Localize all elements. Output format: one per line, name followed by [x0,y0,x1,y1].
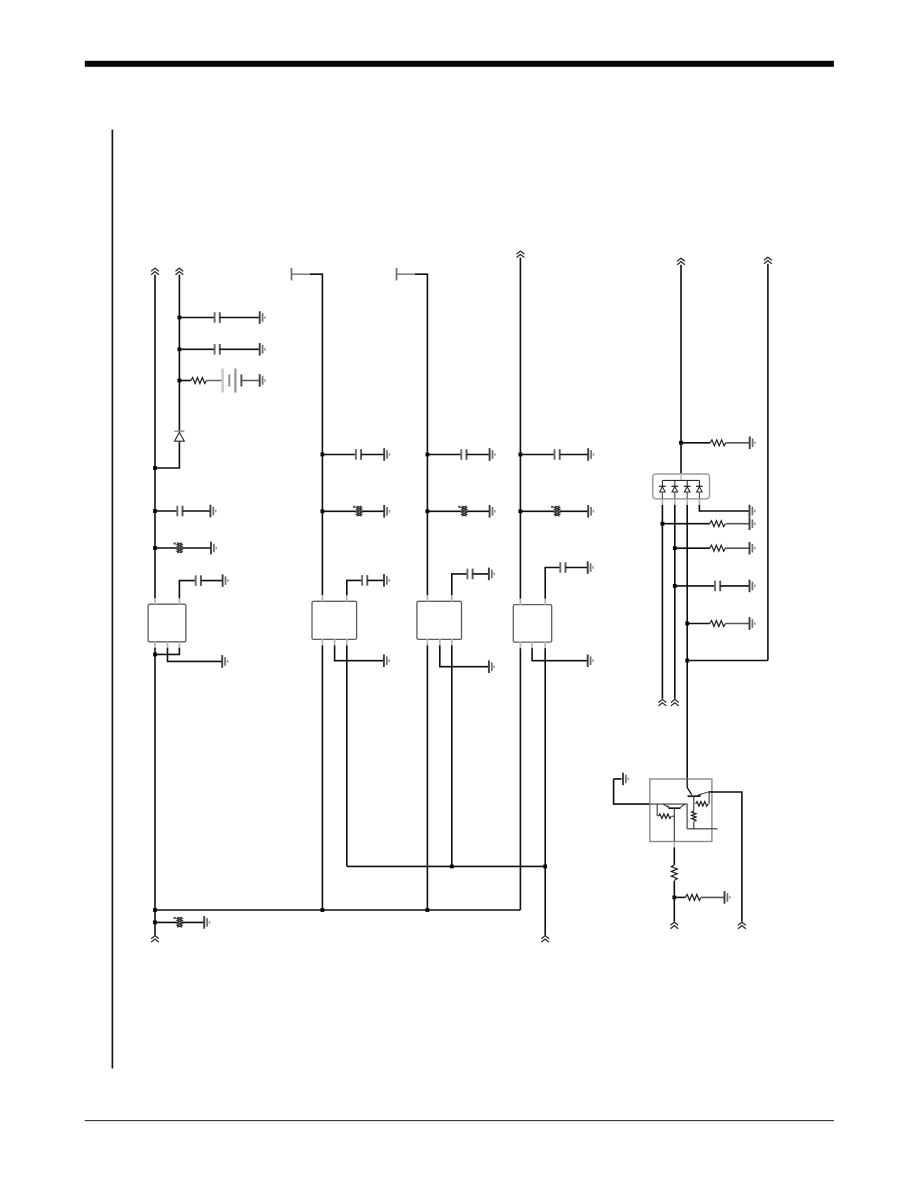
wire C7 right lead [467,454,490,456]
wire U4 pin3 to C10 [545,568,560,599]
resistor R9 [710,621,726,627]
junction bus2-U3 [426,908,430,912]
wire U5 common bus [662,479,699,481]
node VCC2 off-page arrow [176,268,184,275]
Q1 pin stub bottom [673,842,675,848]
U1 pin stub top-left [154,598,156,604]
wire U5 pin2 down [674,505,676,699]
transistor Q1-B (right) [687,779,709,796]
diode-array U5 body [653,474,710,499]
wire Q1-RA link [672,815,674,817]
ground R3 [384,505,389,518]
resistor Q1-RB [696,802,709,807]
wire R2 right lead [182,547,211,549]
resistor R7 [710,521,726,527]
ground R9 [750,617,755,630]
U3 pin stub bottom-left [426,639,428,645]
wire U5 common stub [680,474,682,480]
diode D1 [174,431,184,441]
wire C1 left lead [179,317,214,319]
op-amp U4 resonator [513,605,551,643]
wire U4 mid pin to ground [532,648,588,661]
wire U2 right pin down [346,645,348,866]
U2 pin stub top-right [346,595,348,601]
resistor R2 (bead) [174,543,183,553]
wire R8 right lead [725,547,749,549]
capacitor C8 [467,569,472,580]
U2 pin stub bottom-right [346,639,348,645]
ground U1 mid pin [222,655,227,668]
ground R6 [750,437,755,450]
wire Q1 bias input [614,779,650,804]
capacitor C3 [177,506,182,517]
junction p1-R7 [661,522,665,526]
junction F-R6 [679,441,683,445]
U5 pin stub 1 [661,499,663,505]
ground C1 [260,311,265,324]
node VDD2 off-page arrow [764,257,772,264]
resistor R12 [685,894,701,900]
wire line-A lower vertical [154,648,156,935]
junction E-R5 [519,509,523,513]
wire C11 right lead [720,585,749,587]
op-amp U1 resonator [148,604,186,642]
U4 pin stub bottom-left [519,642,521,648]
capacitor C5 [356,449,361,460]
wire bus2 [155,909,520,911]
node VCC3 off-page arrow [517,251,525,258]
resistor R11 [671,865,677,881]
wire p3 to line-G [687,660,768,662]
U4 pin stub bottom-right [544,642,546,648]
U4 pin stub top-left [519,599,521,605]
wire C10 right lead [566,567,588,569]
wire C2 right lead [220,348,260,350]
wire C11 left lead [675,585,715,587]
junction C-R3 [321,509,325,513]
U3 pin stub top-right [451,595,453,601]
wire C3 right lead [183,510,211,512]
wire R3 left lead [322,510,356,512]
terminal T2 [396,268,398,280]
capacitor C7 [461,449,466,460]
ground BT1 [260,374,265,387]
wire Q1 emitter down [673,848,675,865]
wire line-G vertical [767,264,769,661]
resistor Q1-RA [658,814,671,819]
resistor R8 [710,545,726,551]
diode U5-D3 [684,480,691,499]
wire Q1 collector stub [687,828,717,830]
junction B-C2 [178,347,182,351]
wire B diode to jog [155,442,179,468]
node OUT off-page arrow [738,922,746,929]
wire U3 pin3 to C8 [452,574,468,595]
ground R2 [211,542,216,555]
wire Q1-B emitter link [708,792,710,804]
U2 pin stub bottom-mid [334,639,336,645]
wire R11 tail [673,881,675,922]
resistor R5 (bead) [551,506,560,516]
wire R7 right lead [726,523,749,525]
wire C2 left lead [179,348,214,350]
node GND-A off-page arrow [151,936,159,943]
wire column-D from T2 lead [397,273,416,275]
wire C8 right lead [473,573,489,575]
U5 pin stub 4 [698,499,700,505]
node P2 off-page arrow [671,699,679,706]
wire U1 mid pin to ground [168,648,223,662]
ground C9 [588,448,593,461]
ground C10 [588,561,593,574]
node VDD1 off-page arrow [677,258,685,265]
wire U1 right pin jog [155,648,179,655]
wire C9 right lead [560,454,589,456]
ground R12 [725,891,730,904]
wire R12 right lead [701,896,725,898]
wire C7 left lead [427,454,461,456]
wire U3 left pin down [426,645,428,910]
wire BT1 right lead [241,380,259,382]
junction R11-R12 [672,896,676,900]
U5 pin stub 2 [674,499,676,505]
wire R9 right lead [725,623,749,625]
wire line-B vertical [178,275,180,431]
U3 pin stub bottom-mid [439,639,441,645]
wire column-C from T1 lead [292,273,311,275]
wire U3 right pin down [451,645,453,866]
diode U5-D1 [659,480,666,499]
wire R5 right lead [560,510,589,512]
wire R6 right lead [726,442,750,444]
junction p3-G [685,659,689,663]
resistor R3 (bead) [353,506,362,516]
capacitor C4 [196,575,201,586]
ground R5 [588,505,593,518]
wire line-A vertical [154,275,156,599]
transistor Q1 body [650,779,712,842]
wire R10 right lead [182,921,204,923]
U3 pin stub bottom-right [451,639,453,645]
wire U2 mid pin to ground [335,645,384,660]
ground C3 [210,505,215,518]
resistor R1 [191,378,207,384]
wire U5 pin1 down [661,505,663,699]
wire R8 left lead [675,547,710,549]
wire U3 mid pin to ground [440,645,489,666]
wire R6 left lead [681,442,710,444]
wire R9 left lead [687,623,710,625]
junction A-R2 [153,546,157,550]
wire U5 pin4 to ground [699,505,749,511]
junction bus1-U3 [450,865,454,869]
ground U4 mid pin [588,654,593,667]
wire C3 left lead [155,510,177,512]
junction A-R10 [153,921,157,925]
wire U4 right pin down [544,648,546,935]
wire line-F vertical [680,265,682,474]
ground R8 [750,542,755,555]
node EMIT off-page arrow [670,922,678,929]
wire U2 left pin down [321,645,323,910]
ground C5 [384,448,389,461]
wire C5 left lead [322,454,356,456]
ground R4 [490,505,495,518]
battery BT1 [223,369,242,393]
ground U3 mid pin [489,660,494,673]
U5 pin stub 3 [686,499,688,505]
wire R1-BT1 lead [206,380,222,382]
transistor Q1-A (left) [663,804,685,808]
wire C5 right lead [361,454,384,456]
junction D-C7 [426,453,430,457]
capacitor C10 [560,562,565,573]
U3 pin stub top-left [426,595,428,601]
wire C4 right lead [201,580,223,582]
wire R4 right lead [467,510,490,512]
terminal T1 [291,268,293,280]
capacitor C6 [362,575,367,586]
ground C2 [260,343,265,356]
wire Q1 output [709,792,742,922]
capacitor C1 [215,312,220,323]
wire U2 pin3 to C6 [347,580,362,595]
resistor R4 (bead) [458,506,467,516]
junction A-bus2 [153,908,157,912]
wire C9 left lead [520,454,554,456]
ground C8 [489,568,494,581]
junction p2-C11 [673,584,677,588]
wire column-D from T2 [415,274,427,595]
junction p3-R9 [685,622,689,626]
wire R12 left lead [674,896,685,898]
ground R10 [204,916,209,929]
resistor R6 [710,440,726,446]
U4 pin stub top-right [544,599,546,605]
U1 pin stub bottom-right [178,641,180,647]
wire R2 left lead [155,547,177,549]
wire C1 right lead [220,317,260,319]
resistor R10 (bead) [174,917,183,927]
wire R4 left lead [427,510,461,512]
U2 pin stub top-left [321,595,323,601]
U1 pin stub top-right [178,598,180,604]
wire C6 right lead [367,579,384,581]
ground C4 [223,574,228,587]
wire Q1-A base branch [656,804,658,816]
wire column-C from T1 [310,274,322,595]
ground Q1 bias [623,773,628,786]
wire U5 pin3 down [686,505,688,779]
wire bus1 [347,865,545,867]
wire Q1-B base drop [693,796,695,811]
wire Q1 input rail [650,804,687,829]
node P1 off-page arrow [659,699,667,706]
junction A-C3 [153,509,157,513]
wire Q1-RB link [708,803,711,805]
junction A-U1 [153,653,157,657]
U2 pin stub bottom-left [321,639,323,645]
resistor Q1-RC [692,811,696,822]
junction E-bus1 [543,865,547,869]
wire U1 pin3 to C4 [179,581,195,599]
wire R3 right lead [362,510,385,512]
wire R10 left lead [155,921,177,923]
wire R1 left lead [179,380,190,382]
wire R5 left lead [520,510,554,512]
capacitor C11 [715,581,720,592]
junction C-C5 [321,453,325,457]
junction A-B jog [153,466,157,470]
op-amp U2 resonator [312,601,357,639]
ground C11 [750,580,755,593]
capacitor C9 [555,449,560,460]
diode U5-D4 [696,480,703,499]
wire column-E vertical [519,258,521,599]
junction E-C9 [519,453,523,457]
U4 pin stub bottom-mid [531,642,533,648]
wire Q1-RC tail [693,822,695,829]
diode U5-D2 [671,480,678,499]
junction D-R4 [426,509,430,513]
ground C6 [384,574,389,587]
wire Q1-A emitter drop [673,808,675,841]
ground R7 [750,517,755,530]
ground C7 [490,448,495,461]
node VCC1 off-page arrow [151,268,159,275]
wire U4 left pin down [519,648,521,910]
op-amp U3 resonator [417,601,462,639]
ground U5 pin4 [750,505,755,518]
node GND-E off-page arrow [541,936,549,943]
capacitor C2 [215,344,220,355]
U1 pin stub bottom-left [154,641,156,647]
U1 pin stub bottom-mid [167,641,169,647]
junction B-R1 [178,379,182,383]
junction bus2-U2 [321,908,325,912]
ground U2 mid pin [384,654,389,667]
junction B-C1 [178,316,182,320]
wire R7 left lead [662,523,709,525]
junction p2-R8 [673,546,677,550]
